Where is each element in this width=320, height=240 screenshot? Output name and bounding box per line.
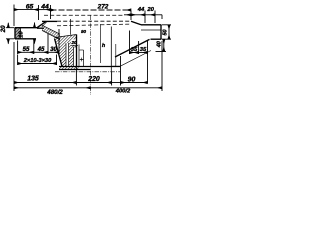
- svg-text:35: 35: [140, 47, 147, 53]
- svg-text:45: 45: [37, 46, 45, 53]
- svg-text:44: 44: [137, 7, 145, 13]
- svg-text:55: 55: [23, 46, 30, 53]
- svg-text:35: 35: [131, 47, 138, 53]
- svg-text:90: 90: [81, 29, 87, 34]
- svg-text:h: h: [102, 43, 106, 49]
- svg-text:50: 50: [162, 30, 168, 36]
- svg-text:40: 40: [157, 41, 163, 48]
- svg-text:20: 20: [70, 40, 77, 45]
- svg-text:2×10-3×30: 2×10-3×30: [23, 58, 52, 64]
- svg-text:20: 20: [146, 7, 154, 13]
- svg-text:30: 30: [50, 46, 57, 53]
- svg-text:44: 44: [40, 3, 49, 10]
- svg-text:220: 220: [87, 76, 100, 83]
- svg-text:135: 135: [27, 75, 39, 82]
- svg-text:480/2: 480/2: [46, 89, 63, 96]
- svg-text:65: 65: [26, 3, 34, 10]
- svg-text:10: 10: [19, 31, 25, 38]
- svg-text:90: 90: [128, 77, 136, 84]
- svg-text:400/2: 400/2: [115, 89, 131, 95]
- svg-text:272: 272: [97, 4, 109, 11]
- svg-text:20: 20: [0, 25, 7, 33]
